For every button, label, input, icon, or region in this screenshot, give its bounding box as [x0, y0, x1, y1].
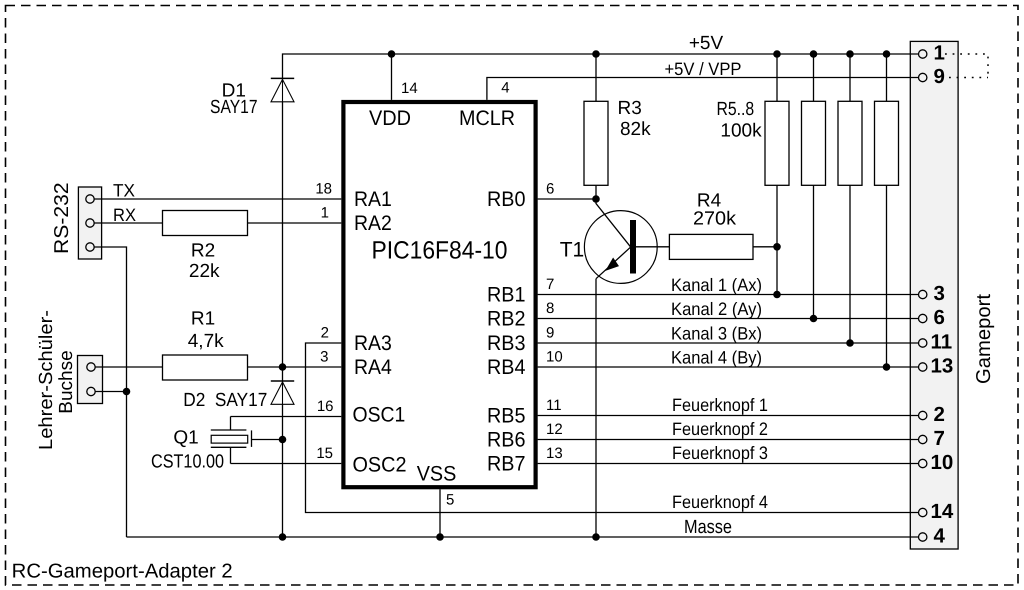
- svg-text:14: 14: [401, 80, 418, 97]
- svg-text:4: 4: [934, 525, 946, 548]
- svg-text:OSC2: OSC2: [353, 454, 407, 477]
- svg-text:Masse: Masse: [684, 517, 732, 538]
- svg-text:11: 11: [546, 397, 562, 414]
- svg-text:Feuerknopf 3: Feuerknopf 3: [672, 443, 768, 463]
- svg-text:TX: TX: [113, 181, 135, 201]
- svg-text:15: 15: [316, 445, 333, 462]
- svg-text:RB1: RB1: [487, 284, 526, 307]
- svg-text:R3: R3: [618, 98, 642, 119]
- svg-text:1: 1: [934, 42, 945, 65]
- svg-text:Feuerknopf 1: Feuerknopf 1: [672, 395, 768, 415]
- svg-text:9: 9: [546, 325, 554, 342]
- svg-text:OSC1: OSC1: [353, 404, 406, 427]
- svg-text:18: 18: [315, 181, 332, 198]
- svg-text:2: 2: [321, 325, 329, 342]
- svg-text:T1: T1: [560, 239, 585, 262]
- svg-text:5: 5: [446, 492, 454, 509]
- svg-text:1: 1: [321, 205, 329, 222]
- svg-text:R2: R2: [191, 241, 215, 262]
- svg-text:9: 9: [934, 65, 945, 88]
- svg-text:CST10.00: CST10.00: [151, 452, 224, 473]
- svg-text:Gameport: Gameport: [973, 294, 995, 384]
- svg-text:RB7: RB7: [487, 453, 526, 476]
- svg-text:4: 4: [501, 80, 509, 97]
- svg-text:RA3: RA3: [354, 332, 392, 355]
- svg-text:2: 2: [934, 403, 945, 426]
- svg-text:Feuerknopf 2: Feuerknopf 2: [672, 419, 768, 439]
- svg-text:RB4: RB4: [487, 356, 526, 379]
- svg-text:100k: 100k: [720, 121, 762, 142]
- svg-text:RC-Gameport-Adapter 2: RC-Gameport-Adapter 2: [12, 561, 233, 583]
- svg-text:MCLR: MCLR: [459, 107, 515, 130]
- svg-text:10: 10: [931, 451, 954, 474]
- svg-text:14: 14: [931, 500, 954, 523]
- svg-text:8: 8: [546, 300, 554, 317]
- svg-text:6: 6: [546, 181, 554, 198]
- svg-text:12: 12: [546, 421, 563, 438]
- svg-text:R1: R1: [191, 309, 215, 330]
- svg-text:+5V: +5V: [689, 33, 724, 54]
- svg-text:13: 13: [546, 445, 563, 462]
- svg-text:RA2: RA2: [354, 212, 392, 235]
- svg-text:RB2: RB2: [487, 308, 526, 331]
- svg-text:Kanal 1 (Ax): Kanal 1 (Ax): [671, 275, 762, 295]
- svg-text:16: 16: [317, 398, 334, 415]
- svg-text:VDD: VDD: [369, 107, 411, 130]
- svg-text:7: 7: [546, 276, 554, 293]
- svg-text:RB3: RB3: [487, 332, 526, 355]
- svg-text:VSS: VSS: [417, 463, 457, 486]
- svg-text:RB5: RB5: [487, 405, 526, 428]
- svg-text:13: 13: [931, 355, 954, 378]
- svg-text:10: 10: [546, 349, 563, 366]
- svg-text:D2 SAY17: D2 SAY17: [183, 390, 267, 411]
- svg-text:Feuerknopf 4: Feuerknopf 4: [672, 492, 768, 512]
- svg-text:3: 3: [320, 349, 328, 366]
- svg-text:Kanal 3 (Bx): Kanal 3 (Bx): [671, 324, 762, 344]
- svg-text:11: 11: [931, 331, 953, 354]
- svg-text:Kanal 2 (Ay): Kanal 2 (Ay): [671, 299, 762, 319]
- svg-text:Kanal 4 (By): Kanal 4 (By): [671, 348, 762, 368]
- svg-text:270k: 270k: [693, 209, 737, 230]
- svg-text:6: 6: [934, 306, 945, 329]
- svg-text:Lehrer-Schüler-: Lehrer-Schüler-: [36, 310, 57, 450]
- svg-text:3: 3: [934, 282, 945, 305]
- svg-text:4,7k: 4,7k: [188, 331, 224, 352]
- svg-text:+5V / VPP: +5V / VPP: [665, 59, 742, 79]
- svg-text:82k: 82k: [620, 119, 651, 140]
- svg-text:7: 7: [934, 427, 945, 450]
- svg-text:RS-232: RS-232: [51, 182, 73, 254]
- svg-text:RA4: RA4: [354, 356, 392, 379]
- svg-text:RX: RX: [113, 205, 136, 225]
- svg-text:Buchse: Buchse: [56, 350, 77, 413]
- svg-text:RA1: RA1: [354, 188, 392, 211]
- svg-text:R5..8: R5..8: [716, 99, 754, 120]
- svg-text:RB6: RB6: [487, 429, 526, 452]
- svg-text:RB0: RB0: [487, 188, 526, 211]
- svg-text:SAY17: SAY17: [210, 97, 258, 118]
- svg-text:22k: 22k: [189, 261, 220, 282]
- svg-text:PIC16F84-10: PIC16F84-10: [372, 237, 508, 265]
- svg-text:Q1: Q1: [173, 428, 198, 449]
